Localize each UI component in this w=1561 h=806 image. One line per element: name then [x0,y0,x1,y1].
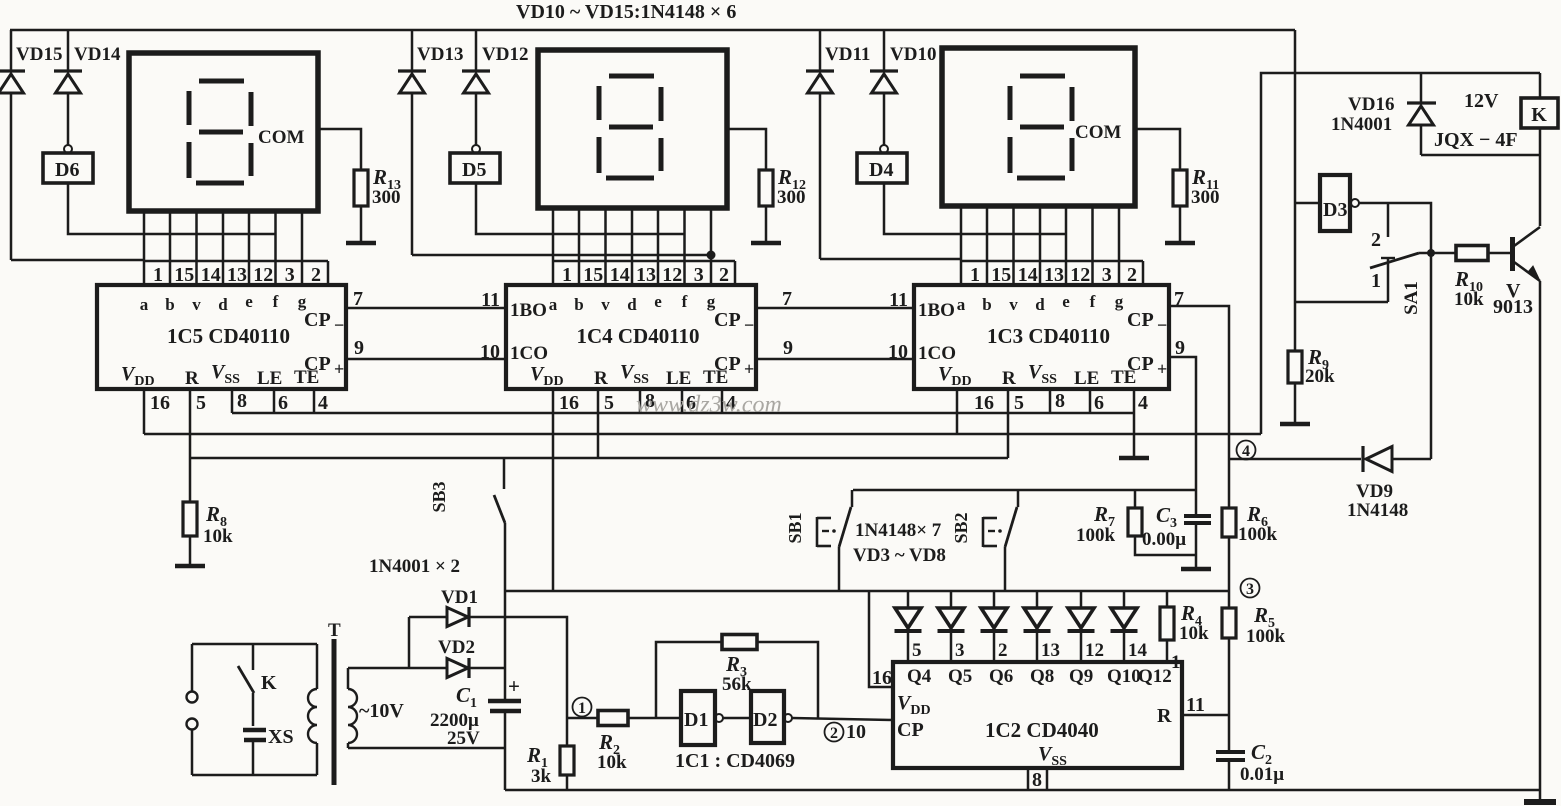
7-seg display digit [942,48,1135,206]
svg-text:16: 16 [872,667,892,689]
relay coil K JQX-4F 12V [1539,73,1542,98]
svg-text:8: 8 [1032,769,1042,791]
svg-text:1C5 CD40110: 1C5 CD40110 [167,324,290,348]
svg-text:Q12: Q12 [1138,666,1172,687]
svg-text:15: 15 [174,264,194,286]
wire R8 to ground [189,536,192,566]
node 2 [825,723,844,742]
capacitor C3 0.00u [1184,514,1211,518]
ground below R13 [346,241,376,246]
svg-text:14: 14 [1018,264,1038,286]
node 3 [1241,579,1260,598]
svg-text:d: d [627,295,637,314]
svg-text:10k: 10k [597,752,627,773]
svg-text:R: R [594,368,608,389]
node 4 [1237,441,1256,460]
svg-text:1: 1 [970,264,980,286]
svg-text:1: 1 [578,700,586,717]
svg-text:b: b [165,295,174,314]
svg-text:100k: 100k [1246,626,1286,647]
svg-text:4: 4 [1242,443,1250,460]
svg-text:LE: LE [666,368,691,389]
svg-text:1: 1 [562,264,572,286]
wire D3 output [1359,203,1431,459]
svg-text:5: 5 [912,640,922,661]
svg-text:1N4148× 7: 1N4148× 7 [855,520,942,541]
wire R pin 5 stub [597,389,600,458]
svg-text:1C4 CD40110: 1C4 CD40110 [576,324,699,348]
svg-text:VD15: VD15 [16,44,62,65]
wire SB2 to VDD rail [1004,547,1007,591]
wire R12 to ground [765,206,768,243]
resistor R1 3k [566,718,569,746]
svg-text:VD11: VD11 [825,44,870,65]
resistor R8 10k [183,502,197,536]
wire D6 to pin row [68,183,276,234]
svg-text:LE: LE [1074,368,1099,389]
svg-text:VD14: VD14 [74,44,121,65]
svg-text:a: a [549,295,558,314]
svg-text:300: 300 [1191,187,1220,208]
svg-text:−: − [744,315,754,335]
wire R7 bottom to C3 bottom [1135,536,1196,555]
wire D2 output to 1C2 CP [792,718,893,720]
pin number row 1 15 14 13 12 3 2 [961,260,1143,263]
svg-text:Q4: Q4 [907,666,932,687]
diode VD6 [1036,591,1039,608]
wire SB3 to VDD rail corner [504,523,507,591]
wire R10 to base [1488,252,1511,255]
wire VD1 branch riser [408,617,411,668]
svg-text:−: − [334,315,344,335]
diode VD1 [409,616,447,619]
svg-text:K: K [261,672,277,694]
svg-text:11: 11 [1186,694,1205,716]
switch SA1 contact 1 [1387,258,1390,302]
wire top bus [10,29,1295,32]
svg-text:f: f [682,292,688,311]
wire CP- 1C5 to 1BO 1C4 [346,307,506,310]
svg-text:1CO: 1CO [918,343,956,364]
svg-text:2: 2 [1127,264,1137,286]
diode VD7 [1080,591,1083,608]
svg-text:3: 3 [955,640,965,661]
svg-text:4: 4 [318,392,328,414]
svg-text:D1: D1 [684,709,708,731]
svg-text:1N4001: 1N4001 [1331,114,1392,135]
7-seg display digit [538,50,727,208]
svg-text:3: 3 [1102,264,1112,286]
wire 1C2 VSS pin 8 [1027,768,1030,790]
svg-text:1C2 CD4040: 1C2 CD4040 [985,718,1099,742]
diode VD11 [819,30,822,71]
svg-text:10k: 10k [1454,289,1484,310]
svg-text:100k: 100k [1238,524,1278,545]
wire R6 to node 3 [1228,537,1231,608]
wire VSS pin 8 stub [639,389,642,413]
transformer T core [332,639,337,785]
svg-text:XS: XS [268,726,294,748]
wire LE pin 6 stub [681,389,684,413]
svg-text:0.00μ: 0.00μ [1142,529,1186,550]
svg-text:TE: TE [703,367,728,388]
wire node 1 to R2 [567,717,598,720]
svg-text:100k: 100k [1076,525,1116,546]
svg-text:SB1: SB1 [785,512,805,543]
transistor V 9013 [1510,237,1515,271]
svg-text:TE: TE [1111,367,1136,388]
svg-text:D5: D5 [462,159,486,181]
diode VD2 [348,667,447,670]
wire VD15 to pin row [11,259,144,262]
svg-text:www.dz3w.com: www.dz3w.com [636,392,782,418]
svg-text:VD10: VD10 [890,44,936,65]
svg-text:2: 2 [311,264,321,286]
wire CP+ 1C5 to 1CO 1C4 [346,358,506,361]
svg-text:VD10 ~ VD15:1N4148 × 6: VD10 ~ VD15:1N4148 × 6 [516,1,736,23]
wire CP+ 1C3 riser to pulse bus [1169,357,1196,516]
svg-text:16: 16 [150,392,170,414]
svg-text:f: f [273,292,279,311]
svg-text:13: 13 [1041,640,1060,661]
transformer secondary winding ~10V [347,668,350,689]
svg-text:v: v [1009,295,1018,314]
svg-text:T: T [328,620,341,641]
wire D4 to pin row [884,183,1066,234]
diode VD8 [1123,591,1126,608]
svg-text:CP: CP [714,309,741,331]
wire R9 to ground [1294,383,1297,424]
svg-text:CP: CP [304,309,331,331]
svg-text:5: 5 [1014,392,1024,414]
svg-text:Q5: Q5 [948,666,972,687]
diode VD4 [950,591,953,608]
diode VD10 [883,30,886,71]
ground at emitter bottom [1524,799,1556,805]
svg-text:3: 3 [285,264,295,286]
wire 0V bottom bus [505,789,1540,792]
svg-text:Q8: Q8 [1030,666,1054,687]
driver D6 [64,145,72,153]
wire R2 to D1 input [628,717,681,720]
svg-text:v: v [192,295,201,314]
svg-text:CP: CP [897,719,924,741]
wire top bus drop to D3 input [1294,30,1297,351]
wire CP- 1C3 to node 4 chain [1169,306,1229,508]
svg-text:8: 8 [237,390,247,412]
svg-text:v: v [601,295,610,314]
resistor R7 100k [1134,490,1137,508]
svg-text:g: g [1115,292,1124,311]
svg-text:56k: 56k [722,674,752,695]
wire R pin 5 stub [1007,389,1010,458]
wire COM to R12 [727,129,766,170]
svg-text:12: 12 [253,264,273,286]
svg-text:COM: COM [1075,122,1122,143]
capacitor C2 0.01u [1216,750,1245,754]
svg-text:12: 12 [1070,264,1090,286]
resistor R2 10k [598,711,628,726]
svg-text:0.01μ: 0.01μ [1240,764,1284,785]
IC 1C5 CD40110 [97,285,346,389]
wire VSS/LE bus [232,412,1134,415]
svg-text:a: a [140,295,149,314]
svg-text:D6: D6 [55,159,79,181]
svg-text:15: 15 [991,264,1011,286]
wire display segment pins [960,206,963,261]
svg-text:4: 4 [1138,392,1148,414]
IC 1C3 CD40110 [914,285,1169,389]
svg-text:14: 14 [201,264,221,286]
svg-text:VD9: VD9 [1356,481,1393,502]
diode VD14 [67,30,70,71]
diode VD13 [411,30,414,71]
svg-text:1C3 CD40110: 1C3 CD40110 [987,324,1110,348]
svg-text:12: 12 [662,264,682,286]
svg-text:f: f [1090,292,1096,311]
ground below R11 [1165,241,1195,246]
svg-text:−: − [1157,315,1167,335]
wire COM to R13 [318,129,361,170]
wire D1 to D2 [723,717,751,720]
wire mains block top [192,643,317,646]
svg-text:1: 1 [153,264,163,286]
svg-text:5: 5 [196,392,206,414]
svg-text:R: R [185,368,199,389]
resistor R4 10k [1166,591,1169,607]
wire VDD pin 16 stub [552,389,555,591]
wire LE pin 6 stub [1089,389,1092,413]
svg-text:e: e [1062,292,1070,311]
wire VSS pin 8 stub [231,389,234,413]
svg-text:13: 13 [636,264,656,286]
ground below 1C3 pin 4 [1119,456,1149,461]
inverter D3 [1320,175,1350,231]
wire secondary bottom to 0V [348,747,505,750]
pin number row 1 15 14 13 12 3 2 [553,260,735,263]
wire TE pin 4 stub [1133,389,1136,457]
wire SB1 to VDD rail [838,547,841,590]
svg-text:e: e [654,292,662,311]
switch K contact [252,644,255,670]
wire display segment pins [143,211,146,261]
IC 1C4 CD40110 [506,285,756,389]
svg-text:9013: 9013 [1493,296,1533,318]
svg-text:15: 15 [583,264,603,286]
svg-text:20k: 20k [1305,366,1335,387]
svg-text:K: K [1531,104,1547,126]
ground below R12 [751,241,781,246]
plug pins [191,644,194,691]
wire COM to R11 [1135,129,1180,170]
svg-text:Q9: Q9 [1069,666,1093,687]
svg-text:R: R [1157,705,1172,727]
wire VDD pin 16 stub [143,389,146,434]
svg-text:+: + [334,359,344,379]
svg-text:13: 13 [1044,264,1064,286]
svg-text:b: b [574,295,583,314]
ground below R8 [175,564,205,569]
wire D5 to pin row [476,183,685,234]
svg-text:+: + [744,359,754,379]
svg-text:12V: 12V [1464,90,1499,112]
svg-text:SB2: SB2 [951,512,971,543]
wire feedback left [656,642,722,718]
svg-text:14: 14 [610,264,630,286]
svg-text:e: e [245,292,253,311]
wire LE pin 6 stub [273,389,276,413]
svg-text:a: a [957,295,966,314]
transformer primary winding [316,644,319,689]
svg-text:1C1 : CD4069: 1C1 : CD4069 [675,750,795,772]
wire CP- 1C4 to 1BO 1C3 [756,307,914,310]
wire D3 input [1295,202,1320,205]
svg-text:9: 9 [783,337,793,359]
svg-text:2: 2 [719,264,729,286]
wire CP+ 1C4 to 1CO 1C3 [756,358,914,361]
wire feedback right [757,642,818,718]
resistor R6 100k [1222,508,1236,537]
7-seg display digit [129,53,318,211]
switch SA1 wiper [1370,253,1419,268]
svg-text:VD13: VD13 [417,44,463,65]
wire TE pin 4 stub [721,389,724,413]
svg-text:VD1: VD1 [441,587,478,608]
diode VD9 1N4148 [1229,458,1361,461]
svg-text:+: + [1157,359,1167,379]
svg-text:2: 2 [998,640,1008,661]
diode VD12 [475,30,478,71]
wire 1C2 reset pin 11 [1182,714,1229,717]
svg-text:7: 7 [782,288,792,310]
svg-text:6: 6 [278,392,288,414]
svg-text:3: 3 [694,264,704,286]
svg-text:16: 16 [974,392,994,414]
svg-text:VD2: VD2 [438,637,475,658]
resistor R13 300 [354,170,368,206]
wire R13 to ground [360,206,363,243]
wire VDD riser to relay supply [1261,73,1540,434]
inverter D1 [681,691,715,745]
wire R5 down to C2 [1228,638,1231,752]
inverter D2 [751,691,784,743]
svg-text:b: b [982,295,991,314]
diode VD16 1N4001 [1420,73,1423,103]
wire VD16 to relay coil bottom [1421,154,1540,157]
svg-text:+: + [508,674,520,698]
svg-text:SB3: SB3 [429,481,449,512]
diode VD5 [993,591,996,608]
svg-text:300: 300 [372,187,401,208]
svg-text:D4: D4 [869,159,893,181]
svg-text:~10V: ~10V [359,700,404,722]
svg-text:10k: 10k [1179,623,1209,644]
svg-text:1: 1 [1371,270,1381,292]
svg-text:300: 300 [777,187,806,208]
ground below R9 [1280,422,1310,427]
wire 1C2 VDD pin 16 [869,590,893,687]
svg-text:14: 14 [1128,640,1148,661]
resistor R10 10k [1456,246,1488,261]
switch SA1 contact 2 [1387,203,1390,237]
resistor R5 100k [1222,608,1236,638]
switch SB1 [851,490,854,507]
svg-text:Q6: Q6 [989,666,1013,687]
wire mains block bottom [192,774,317,777]
svg-text:1BO: 1BO [918,300,955,321]
svg-text:CP: CP [1127,309,1154,331]
svg-text:COM: COM [258,127,305,148]
wire VD11 to pin row [820,258,961,261]
wire emitter to 0V bus [1539,281,1542,801]
wire TE pin 4 stub [313,389,316,413]
driver D5 [472,145,480,153]
pin number row 1 15 14 13 12 3 2 [144,260,328,263]
resistor R3 56k [722,635,757,650]
wire +V to node 1 [505,617,567,718]
svg-text:2: 2 [1371,229,1381,251]
svg-text:16: 16 [559,392,579,414]
svg-text:5: 5 [604,392,614,414]
svg-text:10: 10 [846,721,866,743]
diode VD15 [10,30,13,71]
svg-text:13: 13 [227,264,247,286]
wire VD13 to pin row [412,254,711,257]
wire R11 to ground [1179,206,1182,243]
wire reset bus [190,457,1008,460]
socket XS [252,693,255,726]
svg-text:12: 12 [1085,640,1104,661]
wire display segment pins [552,208,555,261]
svg-text:3k: 3k [531,766,552,787]
svg-text:2: 2 [830,725,838,742]
wire VDD pin 16 stub [956,389,959,434]
svg-text:8: 8 [1055,390,1065,412]
svg-text:7: 7 [353,288,363,310]
wire VDD rail [505,590,1229,593]
svg-text:VD12: VD12 [482,44,528,65]
driver D4 [880,145,888,153]
svg-text:1N4001 × 2: 1N4001 × 2 [369,556,460,577]
svg-text:LE: LE [257,368,282,389]
switch SB3 [503,458,506,489]
svg-text:10k: 10k [203,526,233,547]
wire VSS pin 8 stub [1049,389,1052,413]
svg-text:1N4148: 1N4148 [1347,500,1408,521]
svg-text:25V: 25V [447,728,480,749]
wire R pin 5 stub [189,389,192,502]
wire SA1 contact 1 to R9 node [1295,301,1388,304]
ground below C3 [1181,567,1211,572]
svg-text:9: 9 [1175,337,1185,359]
svg-text:6: 6 [1094,392,1104,414]
svg-text:1CO: 1CO [510,343,548,364]
svg-text:1: 1 [1171,652,1181,673]
svg-text:JQX − 4F: JQX − 4F [1434,129,1518,151]
diode VD3 [907,591,910,608]
resistor R9 20k [1288,351,1302,383]
svg-text:1BO: 1BO [510,300,547,321]
svg-text:D3: D3 [1323,199,1347,221]
svg-text:3: 3 [1246,581,1254,598]
switch SB2 [1017,490,1020,507]
svg-text:d: d [1035,295,1045,314]
wire set pulse bus [853,489,1196,492]
svg-text:SA1: SA1 [1401,281,1422,315]
svg-text:VD3 ~ VD8: VD3 ~ VD8 [853,545,946,566]
svg-text:Q10: Q10 [1107,666,1141,687]
wire C3 to ground [1195,523,1198,569]
